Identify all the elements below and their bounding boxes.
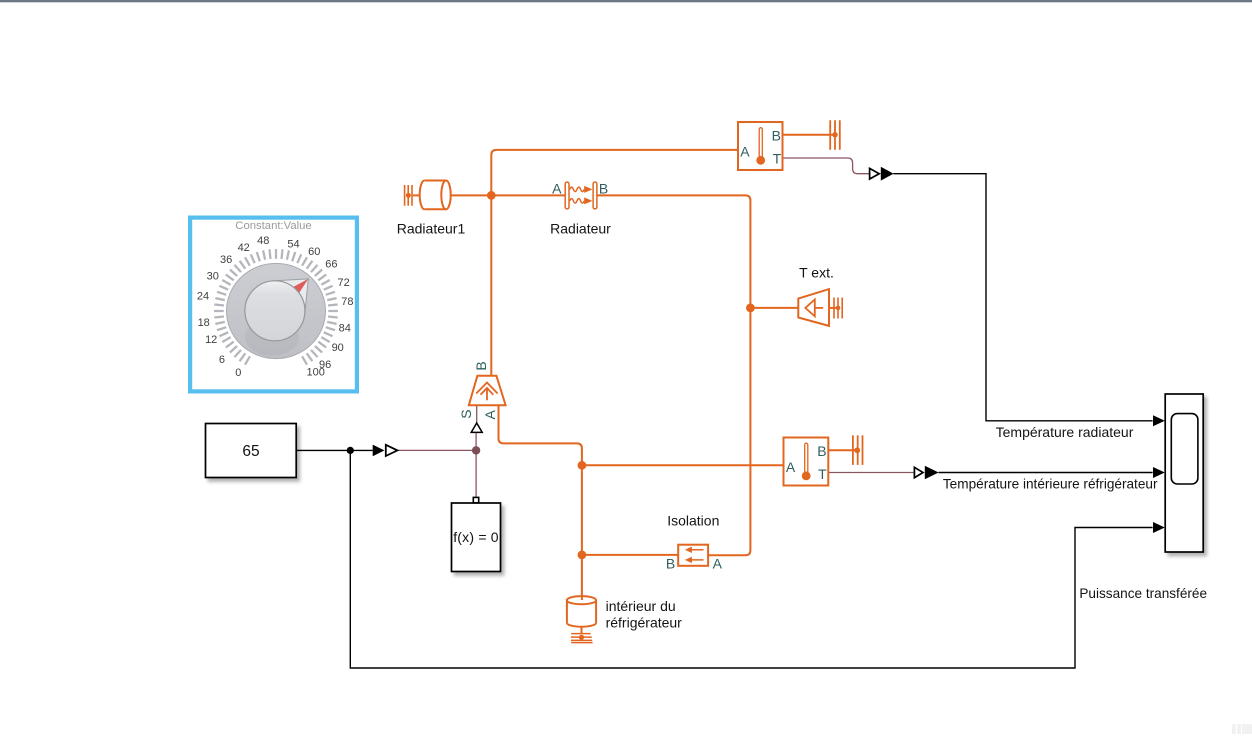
wire converter1 to node J6	[398, 449, 477, 451]
status bar fragments bottom right	[1232, 724, 1252, 734]
wire Radiateur B down to Isolation A	[597, 195, 750, 555]
wire S arrowhead to source S port	[476, 405, 478, 423]
scope input arrowhead 2	[1153, 467, 1165, 478]
temperature source T ext	[798, 289, 829, 326]
svg-text:84: 84	[339, 323, 351, 335]
svg-text:30: 30	[207, 270, 219, 282]
wire node J4 to Isolation B	[582, 554, 678, 556]
wire converter3 to scope input 2	[938, 472, 1152, 474]
wire node J6 up to S arrowhead	[475, 433, 477, 451]
wire sensor2 B to ground3	[828, 449, 857, 451]
svg-text:B: B	[473, 361, 489, 370]
knob inner circle	[245, 281, 305, 341]
svg-text:60: 60	[308, 246, 320, 258]
converter3 ps-to-simulink	[914, 466, 938, 479]
node J5	[347, 447, 354, 454]
node J6	[472, 446, 480, 454]
wire sensor2 T to converter3	[828, 472, 914, 474]
svg-text:100: 100	[307, 367, 325, 379]
svg-text:6: 6	[219, 354, 225, 366]
wire node J3 to sensor2 A	[582, 464, 784, 466]
label T ext.	[799, 264, 834, 280]
node J4	[578, 551, 587, 560]
svg-text:12: 12	[205, 334, 217, 346]
svg-text:T ext.: T ext.	[799, 264, 834, 280]
label Puissance transferee	[1079, 586, 1207, 601]
svg-text:réfrigérateur: réfrigérateur	[606, 615, 683, 631]
ground2 (sensor1 B)	[830, 120, 840, 150]
knob outer dial	[227, 263, 326, 358]
wire ground1 to Radiateur1	[413, 194, 420, 196]
node J2	[746, 304, 755, 313]
wire Radiateur1 to node J1 to Radiateur A	[451, 194, 566, 196]
svg-text:78: 78	[341, 296, 353, 308]
svg-text:Température radiateur: Température radiateur	[996, 424, 1134, 440]
svg-text:90: 90	[332, 342, 344, 354]
wire node J3 down through node J4 to thermal mass	[581, 465, 583, 600]
port label B (Radiateur)	[599, 180, 608, 196]
svg-text:36: 36	[220, 254, 232, 266]
solver port square	[473, 497, 478, 502]
wire node J1 down to source B	[490, 195, 492, 375]
svg-text:T: T	[773, 150, 782, 166]
label Radiateur	[550, 221, 611, 237]
solver block f(x)=0	[452, 503, 501, 572]
wire node J2 to T ext	[750, 307, 798, 309]
port label A (Radiateur)	[552, 180, 562, 196]
ground1 (thermal reference at Radiateur1)	[405, 185, 412, 206]
conductive heat transfer Isolation	[678, 545, 708, 566]
knob widget frame	[190, 218, 357, 392]
wire sensor1 B to ground2	[783, 134, 836, 136]
converter1 simulink-to-ps	[373, 445, 398, 457]
svg-text:B: B	[599, 180, 608, 196]
scope block	[1165, 394, 1203, 552]
svg-text:A: A	[552, 180, 562, 196]
port label A (sensor1)	[740, 143, 750, 159]
svg-text:42: 42	[238, 242, 250, 254]
wire constant 65 to converter1	[296, 449, 373, 451]
svg-text:A: A	[713, 556, 723, 572]
scope input arrowhead 1	[1153, 415, 1165, 426]
knob pointer wedge	[273, 279, 308, 314]
port label B (sensor2)	[817, 443, 826, 459]
wire node J6 down to solver port	[475, 450, 477, 497]
svg-text:48: 48	[257, 235, 269, 247]
ground3 (sensor2 B)	[853, 435, 863, 465]
port label A (sensor2)	[786, 459, 796, 475]
ground5 (thermal mass)	[571, 634, 593, 643]
svg-text:Constant:Value: Constant:Value	[235, 220, 311, 232]
temperature sensor 2	[784, 438, 829, 486]
svg-text:B: B	[666, 556, 675, 572]
port label S (source, rotated)	[458, 409, 474, 418]
knob tick marks	[214, 249, 338, 365]
controlled heat flow source	[469, 376, 506, 406]
temperature sensor 1	[738, 122, 783, 170]
wire converter2 to scope input 1	[893, 174, 1152, 421]
wire node J1 up to sensor1 A	[491, 150, 738, 196]
label Temperature radiateur	[996, 424, 1134, 440]
label Isolation	[667, 512, 719, 528]
port label T (sensor2)	[818, 466, 827, 482]
knob inner shadow	[245, 318, 299, 356]
thermal mass Radiateur1	[420, 180, 451, 209]
window top border	[0, 0, 1252, 2]
svg-text:A: A	[482, 409, 498, 419]
svg-text:S: S	[458, 409, 474, 418]
svg-text:18: 18	[198, 317, 210, 329]
converter2 ps-to-simulink	[870, 167, 894, 181]
ground4 (T ext)	[834, 298, 842, 319]
port label B (Isolation)	[666, 556, 675, 572]
svg-text:24: 24	[197, 291, 209, 303]
wire sensor1 T to converter2	[783, 158, 870, 174]
knob red pointer	[294, 279, 309, 293]
svg-text:54: 54	[287, 238, 299, 250]
port label B (sensor1)	[772, 128, 781, 144]
label interieur du refrigerateur	[606, 598, 683, 631]
node J3	[578, 461, 587, 470]
svg-text:Radiateur: Radiateur	[550, 221, 611, 237]
svg-text:Isolation: Isolation	[667, 512, 719, 528]
svg-text:0: 0	[235, 367, 241, 379]
svg-text:Température intérieure réfrigé: Température intérieure réfrigérateur	[943, 477, 1158, 492]
label Radiateur1	[397, 221, 466, 237]
constant block 65	[206, 424, 297, 478]
wire T ext to ground4	[829, 307, 838, 309]
knob scale numbers	[197, 235, 354, 379]
wire node J5 down and right to scope input 3	[350, 450, 1152, 668]
knob title Constant:Value	[235, 220, 311, 232]
port label A (source, rotated)	[482, 409, 498, 419]
svg-text:T: T	[818, 466, 827, 482]
scope input arrowhead 3	[1153, 522, 1165, 533]
svg-text:Radiateur1: Radiateur1	[397, 221, 466, 237]
svg-text:Puissance transférée: Puissance transférée	[1079, 586, 1207, 601]
svg-text:B: B	[817, 443, 826, 459]
svg-text:65: 65	[242, 443, 259, 460]
svg-text:B: B	[772, 128, 781, 144]
port label A (Isolation)	[713, 556, 723, 572]
thermal mass interieur du refrigerateur	[567, 596, 596, 633]
port label T (sensor1)	[773, 150, 782, 166]
label Temperature interieure refrigerateur	[943, 477, 1158, 492]
svg-text:A: A	[740, 143, 750, 159]
conductive heat transfer Radiateur	[565, 182, 597, 209]
svg-text:intérieur du: intérieur du	[606, 598, 676, 614]
port label B (source, rotated)	[473, 361, 489, 370]
svg-text:f(x) = 0: f(x) = 0	[453, 529, 499, 545]
svg-text:A: A	[786, 459, 796, 475]
svg-text:66: 66	[325, 259, 337, 271]
node J1	[487, 191, 496, 200]
wire source A down to node J3	[499, 405, 582, 465]
svg-text:72: 72	[337, 277, 349, 289]
S port arrowhead	[471, 423, 482, 432]
